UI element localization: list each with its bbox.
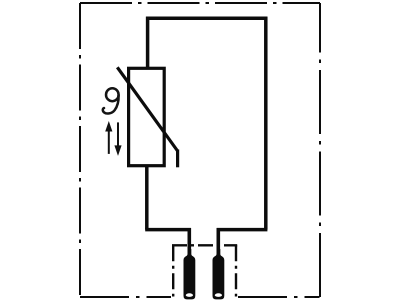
- terminal pin 2 hole: [215, 293, 222, 297]
- terminal pin 1 hole: [186, 293, 193, 297]
- wire: right vertical of loop: [264, 17, 268, 230]
- wire: down to terminal 1: [188, 228, 192, 256]
- arrow up: [105, 121, 112, 154]
- sensor housing boundary (dash-dot frame): [80, 3, 320, 297]
- wire: left vertical from top to thermistor: [146, 17, 150, 69]
- wire: top horizontal of loop: [146, 16, 267, 20]
- temperature symbol theta: [103, 88, 119, 113]
- wire: from thermistor bottom down: [145, 165, 149, 230]
- wire: down to terminal 2: [217, 228, 221, 256]
- wire: bottom-left horizontal: [145, 228, 191, 232]
- thermistor diagonal foot: [176, 150, 179, 168]
- thermistor R1 body: [129, 68, 165, 165]
- terminal pin 2: [213, 249, 225, 299]
- connector housing (dash-dot): [172, 245, 237, 296]
- wire: bottom-right horizontal: [217, 228, 268, 232]
- arrow down: [114, 122, 121, 155]
- terminal pin 1: [184, 249, 196, 299]
- thermistor diagonal stroke: [117, 67, 177, 151]
